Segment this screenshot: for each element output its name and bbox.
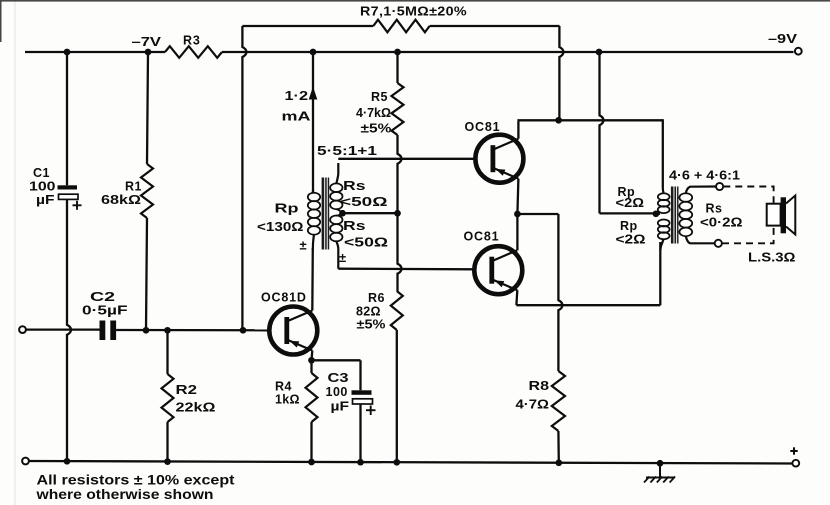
ground: [644, 463, 675, 482]
wire R7 left leg (to OC81D base): [242, 26, 246, 330]
svg-text:Rs: Rs: [706, 202, 723, 216]
svg-text:R2: R2: [176, 383, 198, 397]
junction R4/bottom rail: [308, 459, 315, 466]
wire R6 to bottom rail: [396, 330, 398, 462]
wire node X to Q3 collector: [516, 214, 518, 250]
wire Q2 emitter to node X: [517, 179, 518, 214]
svg-text:4·7kΩ: 4·7kΩ: [356, 106, 391, 120]
wire input to C2: [26, 328, 100, 330]
svg-text:5·5:1+1: 5·5:1+1: [317, 144, 377, 158]
svg-text:R7,1·5MΩ±20%: R7,1·5MΩ±20%: [360, 4, 467, 19]
svg-text:22kΩ: 22kΩ: [176, 401, 216, 415]
current arrow 1.2 mA: [282, 87, 318, 124]
terminal 0V left: [22, 458, 29, 465]
svg-text:R6: R6: [368, 291, 385, 305]
terminal -9V: [768, 31, 802, 55]
svg-text:Rs: Rs: [343, 179, 366, 193]
svg-text:–7V: –7V: [132, 34, 162, 49]
resistor R4 1kΩ: [275, 373, 318, 422]
terminal loudspeaker bottom: [715, 240, 722, 247]
wire bottom rail (0V): [26, 461, 794, 464]
svg-text:<50Ω: <50Ω: [344, 236, 388, 250]
svg-text:±5%: ±5%: [357, 318, 386, 332]
junction R1/top rail: [145, 49, 152, 56]
svg-text:Rs: Rs: [343, 219, 366, 233]
svg-text:Rp: Rp: [275, 202, 300, 216]
svg-text:82Ω: 82Ω: [356, 305, 381, 319]
junction R7 / collector line: [555, 117, 562, 124]
svg-text:0·5µF: 0·5µF: [82, 304, 128, 318]
svg-text:68kΩ: 68kΩ: [101, 193, 141, 207]
junction T1 primary feed/top rail: [310, 49, 317, 56]
svg-text:100: 100: [326, 385, 348, 399]
svg-text:OC81: OC81: [464, 230, 500, 244]
svg-text:1kΩ: 1kΩ: [275, 393, 300, 407]
wire dashed to speaker bottom: [722, 226, 774, 244]
wire rail to R5: [396, 52, 398, 83]
transistor Q3 OC81 (lower): [464, 230, 523, 295]
svg-text:Rp: Rp: [620, 219, 638, 233]
wire collector line to T2 primary top: [517, 119, 662, 121]
capacitor C1 100µF: [29, 166, 82, 210]
svg-text:R3: R3: [183, 34, 201, 48]
resistor R8 4.7Ω: [516, 371, 566, 431]
junction C1/top rail: [64, 49, 71, 56]
capacitor C3 100µF: [326, 371, 376, 415]
wire C1 branch: [67, 52, 71, 462]
junction ground/bottom rail: [657, 460, 664, 467]
resistor R6 82Ω ±5%: [356, 291, 403, 332]
svg-text:R8: R8: [529, 379, 550, 393]
wire OC81D collector to T1 primary: [311, 248, 314, 311]
svg-text:<50Ω: <50Ω: [340, 195, 388, 209]
svg-text:C2: C2: [90, 290, 115, 304]
svg-text:4·7Ω: 4·7Ω: [516, 398, 550, 412]
wire C2 to OC81D base: [116, 329, 268, 332]
svg-text:mA: mA: [282, 110, 311, 124]
wire R2 branch: [166, 330, 168, 462]
loudspeaker L.S. 3Ω: [748, 196, 796, 265]
terminal input: [19, 326, 26, 333]
wire dashed to speaker top: [723, 187, 773, 204]
wire node X to R8: [517, 214, 562, 371]
svg-text:R4: R4: [275, 380, 292, 394]
svg-text:OC81: OC81: [465, 120, 501, 134]
resistor R1 68kΩ: [101, 164, 153, 218]
transistor Q2 OC81 (upper): [465, 120, 524, 183]
svg-text:All resistors ± 10% except: All resistors ± 10% except: [37, 473, 236, 488]
svg-text:R5: R5: [371, 90, 388, 104]
wire -9V rail to T2 centre tap: [600, 52, 654, 213]
wire T1 top secondary to Q2 base: [338, 158, 475, 160]
svg-text:<2Ω: <2Ω: [616, 196, 645, 210]
junction R1/base line: [143, 327, 150, 334]
junction bias node / T1 centre tap: [394, 210, 401, 217]
wire R8 to bottom rail: [557, 431, 560, 463]
svg-text:±: ±: [339, 250, 346, 265]
junction R7/base line: [240, 327, 247, 334]
junction OC81D emitter node: [308, 351, 315, 364]
svg-text:µF: µF: [36, 193, 55, 207]
junction C3/bottom rail: [357, 459, 364, 466]
wire Q3 emitter leg: [515, 290, 518, 305]
junction R8/bottom rail: [555, 459, 562, 466]
wire R5 to R6 (bias node): [398, 135, 402, 291]
wire T2 primary top lead: [662, 119, 664, 188]
junction R5/top rail: [394, 49, 401, 56]
wire T2 primary bottom lead: [659, 242, 661, 305]
svg-text:R1: R1: [125, 180, 142, 194]
svg-text:C3: C3: [328, 371, 349, 385]
wire C3 branch: [312, 360, 361, 462]
junction R2/base line: [164, 327, 171, 334]
junction output CT feed/top rail: [596, 49, 603, 56]
wire T1 bottom secondary to Q3 base: [338, 268, 474, 271]
resistor R3: [165, 34, 222, 58]
note: all resistors ±10% except where otherwise shown: [35, 473, 235, 503]
capacitor C2 0.5µF: [82, 290, 128, 340]
wire top rail left (-7V section): [25, 51, 165, 53]
transistor Q1 OC81D: [261, 291, 317, 355]
wire Q3 emitter to T2 primary bottom: [516, 304, 660, 306]
wire R7 top loop: [242, 25, 559, 27]
svg-text:<0·2Ω: <0·2Ω: [700, 216, 743, 230]
terminal loudspeaker top: [716, 183, 723, 190]
svg-text:where otherwise shown: where otherwise shown: [35, 487, 213, 502]
svg-text:1·2: 1·2: [285, 89, 309, 103]
svg-text:4·6 + 4·6:1: 4·6 + 4·6:1: [669, 169, 740, 183]
svg-text:±: ±: [300, 238, 307, 253]
svg-text:OC81D: OC81D: [261, 291, 307, 305]
svg-text:100: 100: [29, 180, 56, 194]
junction node X (Q2 emitter / Q3 collector): [514, 211, 521, 218]
svg-text:C1: C1: [33, 166, 50, 180]
wire R4 branch: [310, 360, 312, 462]
resistor R7 1.5MΩ ±20%: [360, 4, 467, 33]
svg-text:±5%: ±5%: [361, 122, 392, 136]
terminal 0V right (+): [790, 447, 799, 466]
wire T1 primary feed (1.2mA): [312, 52, 314, 192]
svg-text:µF: µF: [331, 400, 350, 414]
svg-text:–9V: –9V: [768, 31, 797, 46]
transformer T2 output 4.6+4.6:1: [616, 169, 743, 251]
label -7V: [132, 34, 162, 49]
junction C1/bottom rail: [64, 458, 71, 465]
svg-text:L.S.3Ω: L.S.3Ω: [748, 250, 796, 265]
wire R7 right leg (to output collector line): [559, 26, 563, 120]
svg-text:<130Ω: <130Ω: [257, 220, 304, 234]
junction R2/bottom rail: [164, 458, 171, 465]
resistor R2 22kΩ: [162, 374, 216, 422]
wire Q2 collector leg: [517, 122, 519, 139]
svg-text:<2Ω: <2Ω: [616, 233, 646, 247]
wire top rail right (-9V section): [222, 51, 794, 53]
transformer T1 interstage 5.5:1+1: [257, 144, 397, 269]
resistor R5 4.7kΩ ±5%: [356, 83, 404, 136]
wire R1 branch: [146, 52, 148, 330]
junction R6/bottom rail: [393, 459, 400, 466]
